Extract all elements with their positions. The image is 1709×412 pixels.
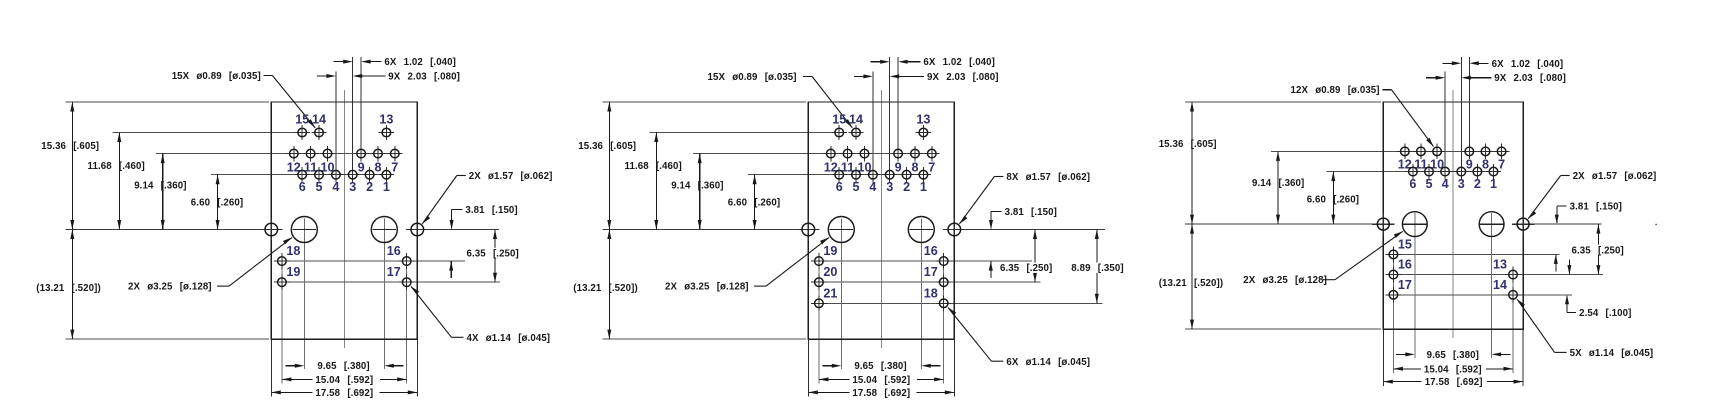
svg-text:16: 16 [924, 244, 938, 258]
svg-text:7: 7 [928, 161, 935, 175]
svg-text:5X ø1.14 [ø.045]: 5X ø1.14 [ø.045] [1570, 348, 1654, 359]
svg-text:8: 8 [1482, 158, 1489, 172]
dimension 6.35 [.250] A [493, 230, 497, 283]
svg-text:15.04 [.592]: 15.04 [.592] [315, 375, 373, 386]
svg-text:2.54 [.100]: 2.54 [.100] [1579, 308, 1631, 319]
extension line top pin row A [113, 132, 295, 134]
extension line pin9 column B [897, 57, 899, 154]
svg-text:9.65 [.380]: 9.65 [.380] [854, 361, 906, 372]
pad 10 C [1429, 144, 1444, 159]
svg-text:15.04 [.592]: 15.04 [.592] [1424, 364, 1482, 375]
svg-text:3: 3 [1458, 177, 1465, 191]
svg-text:1: 1 [1490, 177, 1497, 191]
extension line pin4 column C [1444, 71, 1446, 171]
pad 6 B [832, 167, 847, 182]
dimension 15.36 [.605] C [1190, 102, 1194, 224]
svg-text:15.36 [.605]: 15.36 [.605] [41, 141, 99, 152]
dimension 11.68 [.460] A [117, 133, 121, 230]
svg-text:3: 3 [349, 180, 356, 194]
extension line left big hole column C [1414, 213, 1416, 358]
extension line centre row right A [417, 229, 499, 231]
svg-text:4X ø1.14 [ø.045]: 4X ø1.14 [ø.045] [467, 333, 551, 344]
svg-text:7: 7 [391, 161, 398, 175]
extension line pin3 column A [352, 57, 354, 175]
pad 12 A [286, 146, 301, 161]
pad 7 C [1494, 144, 1509, 159]
pad 3 A [345, 167, 360, 182]
connector body outline C [1383, 102, 1523, 329]
svg-text:14: 14 [849, 112, 863, 126]
svg-text:12X ø0.89 [ø.035]: 12X ø0.89 [ø.035] [1291, 85, 1380, 96]
svg-text:19: 19 [286, 265, 300, 279]
dimension (13.21 [.520]) B [607, 230, 611, 340]
svg-text:6X 1.02 [.040]: 6X 1.02 [.040] [384, 57, 456, 68]
leader to right side hole C [1528, 176, 1570, 219]
dimension 6.60 [.260] B [753, 175, 757, 230]
svg-text:8X ø1.57 [ø.062]: 8X ø1.57 [ø.062] [1006, 172, 1090, 183]
dimension 9X 2.03 [.080] C [1426, 76, 1491, 80]
extension line right big hole column C [1491, 213, 1493, 358]
pad 16 B [936, 253, 952, 269]
extension line centre row right C [1523, 223, 1601, 225]
svg-text:1: 1 [383, 180, 390, 194]
side hole left 1.57mm A [260, 218, 282, 240]
pad 11 C [1413, 144, 1428, 159]
dimension 15.04 [.592] A [282, 377, 407, 381]
extension line centre row A [66, 229, 266, 231]
side hole left 1.57mm C [1372, 213, 1394, 235]
dimension 9.65 [.380] B [822, 364, 940, 368]
svg-text:2X ø1.57 [ø.062]: 2X ø1.57 [ø.062] [1573, 171, 1657, 182]
svg-text:6: 6 [836, 180, 843, 194]
dimension 6X 1.02 [.040] C [1442, 61, 1488, 65]
svg-text:2X ø3.25 [ø.128]: 2X ø3.25 [ø.128] [1243, 275, 1327, 286]
pad 16 C [1386, 267, 1402, 283]
svg-text:6X 1.02 [.040]: 6X 1.02 [.040] [1492, 59, 1564, 70]
leader to right side hole B [959, 177, 1003, 224]
extension line right big hole column B [920, 219, 922, 370]
dimension 9.65 [.380] A [285, 364, 403, 368]
svg-text:13: 13 [916, 112, 930, 126]
svg-text:14: 14 [1493, 278, 1507, 292]
pad 12 B [823, 146, 838, 161]
body left edge extension A [270, 339, 272, 397]
body left edge extension C [1382, 329, 1384, 386]
svg-text:7: 7 [1498, 158, 1505, 172]
svg-text:5: 5 [852, 180, 859, 194]
extension line left big hole column A [303, 219, 305, 370]
extension line left pin column A [281, 253, 283, 384]
extension line centre row right B [954, 229, 1105, 231]
svg-text:16: 16 [1398, 258, 1412, 272]
leader to small plated hole C [1517, 299, 1567, 352]
pad 6 A [295, 167, 310, 182]
pad 4 A [328, 167, 343, 182]
svg-text:3.81 [.150]: 3.81 [.150] [1005, 207, 1057, 218]
svg-text:17: 17 [387, 265, 401, 279]
svg-text:2: 2 [1474, 177, 1481, 191]
extension line right pin column C [1512, 267, 1514, 373]
svg-text:6.60 [.260]: 6.60 [.260] [191, 197, 243, 208]
svg-text:18: 18 [924, 286, 938, 300]
extension line pin row r1 A [282, 260, 465, 262]
svg-text:6.60 [.260]: 6.60 [.260] [728, 197, 780, 208]
svg-text:6: 6 [299, 180, 306, 194]
big hole left 3.25mm B [828, 217, 854, 243]
extension line body bottom A [66, 338, 269, 340]
extension line pin row r2 C [1393, 274, 1603, 276]
svg-text:(13.21 [.520]): (13.21 [.520]) [1159, 278, 1224, 289]
dimension 15.36 [.605] B [607, 102, 611, 230]
pad 20 B [811, 274, 827, 290]
pad 14 C [1505, 287, 1521, 303]
leader to small plated hole A [411, 286, 464, 337]
extension line body bottom C [1185, 328, 1381, 330]
body right edge extension A [416, 339, 418, 397]
svg-text:9.65 [.380]: 9.65 [.380] [1427, 350, 1479, 361]
extension line pin row r1 B [819, 260, 1032, 262]
dimension 9.14 [.360] A [161, 154, 165, 230]
pad 6 C [1405, 164, 1420, 179]
dimension 9X 2.03 [.080] B [854, 74, 924, 78]
extension line pin9 column A [360, 57, 362, 154]
dimension 9.14 [.360] B [698, 154, 702, 230]
svg-text:9: 9 [1466, 158, 1473, 172]
3.81 leader and arrows C [1554, 206, 1567, 271]
extension line left pin column C [1392, 246, 1394, 373]
svg-text:2: 2 [366, 180, 373, 194]
pad 2 A [362, 167, 377, 182]
leader to left big hole A [217, 237, 292, 286]
extension line lower pin row B [748, 174, 931, 176]
pad 14 A [311, 125, 326, 140]
connector body outline B [808, 102, 954, 339]
svg-text:3.81 [.150]: 3.81 [.150] [1570, 202, 1622, 213]
vertical centerline A [343, 90, 345, 348]
pad 11 A [303, 146, 318, 161]
extension line right pin column B [943, 253, 945, 384]
svg-text:6: 6 [1409, 177, 1416, 191]
svg-text:8: 8 [374, 161, 381, 175]
side hole left 1.57mm B [797, 218, 819, 240]
svg-text:15.36 [.605]: 15.36 [.605] [1159, 139, 1217, 150]
pad 14 B [848, 125, 863, 140]
big hole right 3.25mm B [908, 217, 934, 243]
pad 8 B [907, 146, 922, 161]
leader to pin B [803, 76, 852, 127]
extension line centre row B [603, 229, 803, 231]
svg-text:4: 4 [1442, 177, 1449, 191]
svg-text:1: 1 [920, 180, 927, 194]
3.81 leader and arrows B [989, 211, 1002, 278]
svg-text:9X 2.03 [.080]: 9X 2.03 [.080] [927, 72, 999, 83]
svg-text:18: 18 [286, 244, 300, 258]
svg-text:6X ø1.14 [ø.045]: 6X ø1.14 [ø.045] [1006, 357, 1090, 368]
svg-text:17.58 [.692]: 17.58 [.692] [852, 388, 910, 399]
extension line pin row r2 A [282, 281, 500, 283]
extension line left big hole column B [840, 219, 842, 370]
extension line body top B [603, 101, 806, 103]
pad 16 A [399, 253, 415, 269]
pad 4 B [865, 167, 880, 182]
leader to right side hole A [422, 176, 466, 224]
leader to left big hole C [1323, 231, 1403, 279]
dimension 6X 1.02 [.040] A [334, 60, 382, 64]
svg-text:2X ø1.57 [ø.062]: 2X ø1.57 [ø.062] [469, 171, 553, 182]
svg-text:(13.21 [.520]): (13.21 [.520]) [36, 283, 101, 294]
svg-text:20: 20 [823, 265, 837, 279]
dimension 17.58 [.692] A [271, 390, 417, 394]
svg-text:5: 5 [315, 180, 322, 194]
dimension 15.04 [.592] C [1393, 367, 1513, 371]
extension line left pin column B [818, 253, 820, 384]
pad 15 C [1386, 247, 1402, 263]
dimension 6.60 [.260] A [216, 175, 220, 230]
dimension 11.68 [.460] B [654, 133, 658, 230]
extension line right big hole column A [383, 219, 385, 370]
svg-text:9X 2.03 [.080]: 9X 2.03 [.080] [1494, 73, 1566, 84]
extension line pin3 column C [1460, 57, 1462, 172]
svg-text:8.89 [.350]: 8.89 [.350] [1071, 263, 1123, 274]
svg-text:17: 17 [924, 265, 938, 279]
pad 18 B [936, 295, 952, 311]
dimension (13.21 [.520]) C [1190, 224, 1194, 329]
body left edge extension B [807, 339, 809, 397]
svg-text:9.65 [.380]: 9.65 [.380] [317, 361, 369, 372]
dimension 9.65 [.380] C [1396, 352, 1511, 356]
extension line lower pin row C [1327, 171, 1502, 173]
svg-text:(13.21 [.520]): (13.21 [.520]) [573, 283, 638, 294]
big hole left 3.25mm C [1402, 212, 1427, 237]
pad 1 B [916, 167, 931, 182]
svg-text:6.60 [.260]: 6.60 [.260] [1307, 195, 1359, 206]
vertical centerline C [1452, 90, 1454, 338]
svg-text:9: 9 [358, 161, 365, 175]
pad 5 C [1421, 164, 1436, 179]
pad 17 B [936, 274, 952, 290]
pad 4 C [1437, 164, 1452, 179]
dimension 17.58 [.692] B [808, 390, 954, 394]
side hole right 1.57mm B [943, 218, 965, 240]
pad 9 A [353, 146, 368, 161]
stray ink speck [1655, 224, 1657, 225]
pad 13 B [916, 125, 931, 140]
svg-text:17: 17 [1398, 278, 1412, 292]
svg-text:9.14 [.360]: 9.14 [.360] [671, 181, 723, 192]
svg-text:3: 3 [886, 180, 893, 194]
pad 9 B [890, 146, 905, 161]
svg-text:6.35 [.250]: 6.35 [.250] [1572, 245, 1624, 256]
pad 10 A [320, 146, 335, 161]
pad 8 C [1478, 144, 1493, 159]
extension line pin3 column B [889, 57, 891, 175]
dimension 15.04 [.592] B [819, 377, 944, 381]
extension line pin row r2 B [819, 281, 1041, 283]
pad 15 B [832, 125, 847, 140]
dimension 17.58 [.692] C [1383, 380, 1523, 384]
dimension (13.21 [.520]) A [70, 230, 74, 340]
pad 5 A [311, 167, 326, 182]
pad 7 A [387, 146, 402, 161]
dimension 6X 1.02 [.040] B [871, 60, 921, 64]
svg-text:5: 5 [1425, 177, 1432, 191]
dimension 6.35 [.250] B [1033, 230, 1037, 283]
big hole right 3.25mm A [371, 217, 397, 243]
svg-text:16: 16 [387, 244, 401, 258]
pad 7 B [924, 146, 939, 161]
svg-text:17.58 [.692]: 17.58 [.692] [315, 388, 373, 399]
big hole left 3.25mm A [291, 217, 317, 243]
svg-text:14: 14 [312, 112, 326, 126]
extension line right pin column A [406, 253, 408, 384]
connector body outline A [271, 102, 417, 339]
pad 5 B [848, 167, 863, 182]
dimension 9.14 [.360] C [1276, 151, 1280, 224]
pad 9 C [1462, 144, 1477, 159]
extension line pin row r3 B [819, 302, 1103, 304]
side hole right 1.57mm C [1512, 213, 1534, 235]
pad 13 A [379, 125, 394, 140]
leader to pin C [1383, 90, 1434, 147]
svg-text:15X ø0.89 [ø.035]: 15X ø0.89 [ø.035] [708, 72, 797, 83]
pad 1 C [1486, 164, 1501, 179]
3.81 leader and arrows A [449, 209, 462, 278]
extension line middle pin row A [156, 153, 402, 155]
extension line body top C [1185, 101, 1381, 103]
pad 2 B [899, 167, 914, 182]
pad 10 B [857, 146, 872, 161]
svg-text:9: 9 [895, 161, 902, 175]
body right edge extension C [1522, 329, 1524, 386]
extension line top pin row B [650, 132, 832, 134]
extension line body bottom B [603, 338, 806, 340]
extension line body top A [66, 101, 269, 103]
pad 13 C [1505, 267, 1521, 283]
svg-text:11.68 [.460]: 11.68 [.460] [88, 161, 145, 172]
pad 17 C [1386, 287, 1402, 303]
svg-text:6X 1.02 [.040]: 6X 1.02 [.040] [923, 57, 995, 68]
svg-text:9.14 [.360]: 9.14 [.360] [1252, 178, 1304, 189]
svg-text:4: 4 [332, 180, 339, 194]
svg-text:15: 15 [832, 112, 846, 126]
leader to left big hole B [754, 237, 829, 286]
pad 19 A [274, 274, 290, 290]
svg-text:15: 15 [1398, 238, 1412, 252]
extension line pin9 column C [1468, 57, 1470, 151]
svg-text:8: 8 [911, 161, 918, 175]
svg-text:6.35 [.250]: 6.35 [.250] [1000, 263, 1052, 274]
pad 21 B [811, 295, 827, 311]
svg-text:15.36 [.605]: 15.36 [.605] [578, 141, 636, 152]
svg-text:4: 4 [869, 180, 876, 194]
extension line middle pin row C [1271, 150, 1509, 152]
dimension 15.36 [.605] A [70, 102, 74, 230]
side hole right 1.57mm A [406, 218, 428, 240]
pad 8 A [370, 146, 385, 161]
extension line pin row r1 C [1393, 253, 1559, 255]
svg-text:9.14 [.360]: 9.14 [.360] [134, 181, 186, 192]
extension line lower pin row A [211, 174, 394, 176]
svg-text:15.04 [.592]: 15.04 [.592] [852, 375, 910, 386]
pad 15 A [295, 125, 310, 140]
dimension 6.60 [.260] C [1331, 172, 1335, 225]
pad 3 B [882, 167, 897, 182]
pad 2 C [1470, 164, 1485, 179]
svg-text:11.68 [.460]: 11.68 [.460] [625, 161, 682, 172]
svg-text:15X ø0.89 [ø.035]: 15X ø0.89 [ø.035] [172, 71, 261, 82]
extension line middle pin row B [693, 153, 939, 155]
svg-text:17.58 [.692]: 17.58 [.692] [1425, 377, 1483, 388]
extension line centre row C [1185, 223, 1377, 225]
pad 17 A [399, 274, 415, 290]
dimension 6.35 [.250] C [1596, 224, 1600, 275]
svg-text:2: 2 [903, 180, 910, 194]
extension line pin4 column A [335, 71, 337, 174]
pad 12 C [1397, 144, 1412, 159]
big hole right 3.25mm C [1479, 212, 1504, 237]
pad 19 B [811, 253, 827, 269]
pad 11 B [840, 146, 855, 161]
svg-text:21: 21 [823, 286, 837, 300]
pad 3 C [1454, 164, 1469, 179]
extension line pin4 column B [872, 71, 874, 174]
extension line pin row r3 C [1393, 294, 1572, 296]
dimension 8.89 [.350] B [1095, 230, 1099, 304]
svg-text:13: 13 [1493, 258, 1507, 272]
vertical centerline B [880, 90, 882, 348]
svg-text:15: 15 [295, 112, 309, 126]
leader to small plated hole B [948, 308, 1003, 362]
svg-text:19: 19 [823, 244, 837, 258]
body right edge extension B [953, 339, 955, 397]
svg-text:6.35 [.250]: 6.35 [.250] [467, 249, 519, 260]
svg-text:2X ø3.25 [ø.128]: 2X ø3.25 [ø.128] [665, 282, 749, 293]
dimension 9X 2.03 [.080] A [317, 74, 385, 78]
svg-text:13: 13 [379, 112, 393, 126]
pad 18 A [274, 253, 290, 269]
dimension 2.54 [.100] C [1565, 260, 1576, 313]
svg-text:3.81 [.150]: 3.81 [.150] [465, 205, 517, 216]
svg-text:9X 2.03 [.080]: 9X 2.03 [.080] [388, 72, 460, 83]
leader to pin A [264, 76, 316, 128]
svg-text:2X ø3.25 [ø.128]: 2X ø3.25 [ø.128] [128, 282, 212, 293]
pad 1 A [379, 167, 394, 182]
